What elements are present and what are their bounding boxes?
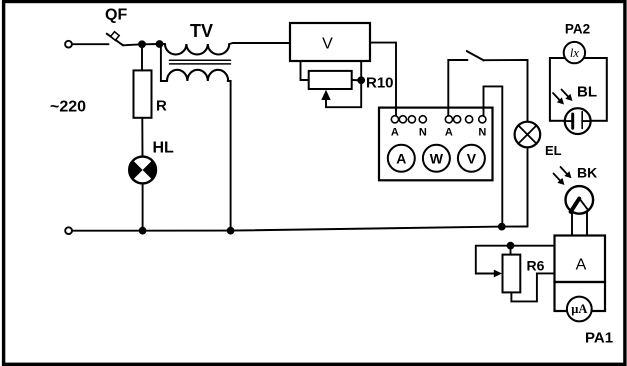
wire: terminal L to QF (72, 43, 108, 45)
wire: switch to EL lamp (484, 60, 528, 122)
node: R10 junction dot (357, 76, 365, 84)
photocell BL (565, 108, 591, 134)
label N terminal 2 (478, 127, 486, 139)
svg-text:A: A (445, 127, 453, 139)
label EL (545, 143, 562, 158)
wire: R6 bottom to box A lower input (511, 273, 554, 301)
svg-text:QF: QF (105, 7, 127, 24)
transformer TV core (170, 60, 231, 64)
terminal circles group 1 (391, 116, 426, 123)
R6 wiper arrow (494, 270, 502, 278)
svg-text:N: N (419, 127, 427, 139)
lamp HL (filled side sectors) (129, 157, 156, 184)
regulator box V (290, 23, 370, 61)
svg-text:R6: R6 (527, 258, 545, 274)
label R6 (527, 258, 545, 274)
wire: R10 wiper return (326, 100, 361, 108)
luxmeter box PA2 (550, 58, 607, 121)
svg-text:V: V (467, 150, 477, 166)
wire: R to HL (141, 118, 143, 157)
amplifier box A (555, 236, 606, 283)
measurement panel box (379, 108, 493, 181)
node: bus dot at HL branch (139, 227, 147, 235)
meter A (388, 145, 415, 172)
wire: EL down to bus (527, 147, 529, 226)
svg-text:BL: BL (577, 84, 597, 101)
breaker QF (open blade with square) (107, 32, 142, 46)
label R (156, 98, 167, 115)
svg-text:~220: ~220 (50, 99, 86, 116)
lamp EL (515, 122, 541, 148)
wire: V box bottom-left to R10 (301, 61, 309, 80)
wire: V box right to meter terminal A1 (370, 43, 396, 116)
wire: dot2 to TV primary (160, 43, 166, 45)
wire: V box bottom-right vertical through junction (360, 61, 362, 107)
wire: terminal N2 loop to bus (484, 86, 503, 226)
svg-text:A: A (391, 127, 399, 139)
label A terminal 2 (445, 127, 453, 139)
node: R6 top junction dot (507, 242, 515, 250)
meter V (458, 145, 485, 172)
label N terminal 1 (419, 127, 427, 139)
potentiometer R10 body (309, 71, 352, 89)
wire: dot1 to dot2 (142, 43, 160, 45)
transformer TV secondary winding (167, 70, 228, 81)
svg-text:W: W (430, 150, 444, 166)
switch SA (lamp circuit, open blade) (467, 51, 484, 60)
meter lx (564, 42, 585, 63)
node: bus dot at TV secondary branch (227, 227, 235, 235)
svg-text:V: V (322, 36, 333, 53)
svg-text:lx: lx (570, 46, 579, 60)
label HL (153, 140, 175, 157)
wire: TV primary to V box (229, 43, 290, 44)
label V (322, 36, 333, 53)
rheostat R6 body (503, 255, 521, 293)
svg-text:PA2: PA2 (565, 22, 590, 37)
svg-text:R10: R10 (366, 75, 394, 92)
label BK (577, 165, 597, 181)
wire: dot1 down to resistor R (141, 44, 143, 70)
svg-text:PA1: PA1 (585, 330, 613, 347)
light arrows into BL (553, 90, 573, 105)
label R10 (366, 75, 394, 92)
svg-text:TV: TV (190, 21, 213, 41)
wire: HL down to bottom bus (142, 183, 144, 230)
node: bus dot at lamp-circuit return (498, 223, 506, 231)
wire: secondary left end up to dot2 (161, 44, 167, 81)
microammeter box (555, 282, 606, 311)
wire: bottom bus (72, 227, 527, 231)
svg-text:μA: μA (571, 302, 587, 316)
photosensor BK neck (572, 208, 587, 236)
svg-text:A: A (396, 150, 406, 166)
label BL (577, 84, 597, 101)
photosensor BK (566, 186, 594, 214)
node: input terminal L (top left) (65, 41, 72, 48)
meter W (423, 145, 450, 172)
node: input terminal N (bottom left) (65, 227, 72, 234)
wire: R10 right end to junction (352, 79, 362, 81)
wire: R6 wiper loop (476, 246, 495, 274)
wire: R6 top feed to box A (476, 245, 555, 247)
svg-text:N: N (478, 127, 486, 139)
label TV (190, 21, 213, 41)
label A terminal 1 (391, 127, 399, 139)
label PA1 (585, 330, 613, 347)
svg-text:BK: BK (577, 165, 597, 181)
wire: secondary right end down to bottom bus (228, 81, 231, 231)
label PA2 (565, 22, 590, 37)
terminal circles group 2 (445, 116, 486, 123)
label ~220 (50, 99, 86, 116)
label QF (105, 7, 127, 24)
wire: junction down to R6 (510, 246, 512, 255)
meter uA (567, 297, 592, 322)
svg-text:EL: EL (545, 143, 562, 158)
svg-text:R: R (156, 98, 167, 115)
R10 wiper arrow (321, 90, 330, 100)
node junction dot 2 (156, 40, 164, 48)
svg-text:HL: HL (153, 140, 175, 157)
transformer TV primary winding (165, 44, 229, 55)
node junction dot 1 (138, 40, 146, 48)
resistor R (134, 70, 152, 117)
light arrows into BK (554, 167, 572, 185)
wire: terminal A2 up to lamp switch (448, 60, 467, 116)
svg-text:A: A (576, 257, 587, 274)
